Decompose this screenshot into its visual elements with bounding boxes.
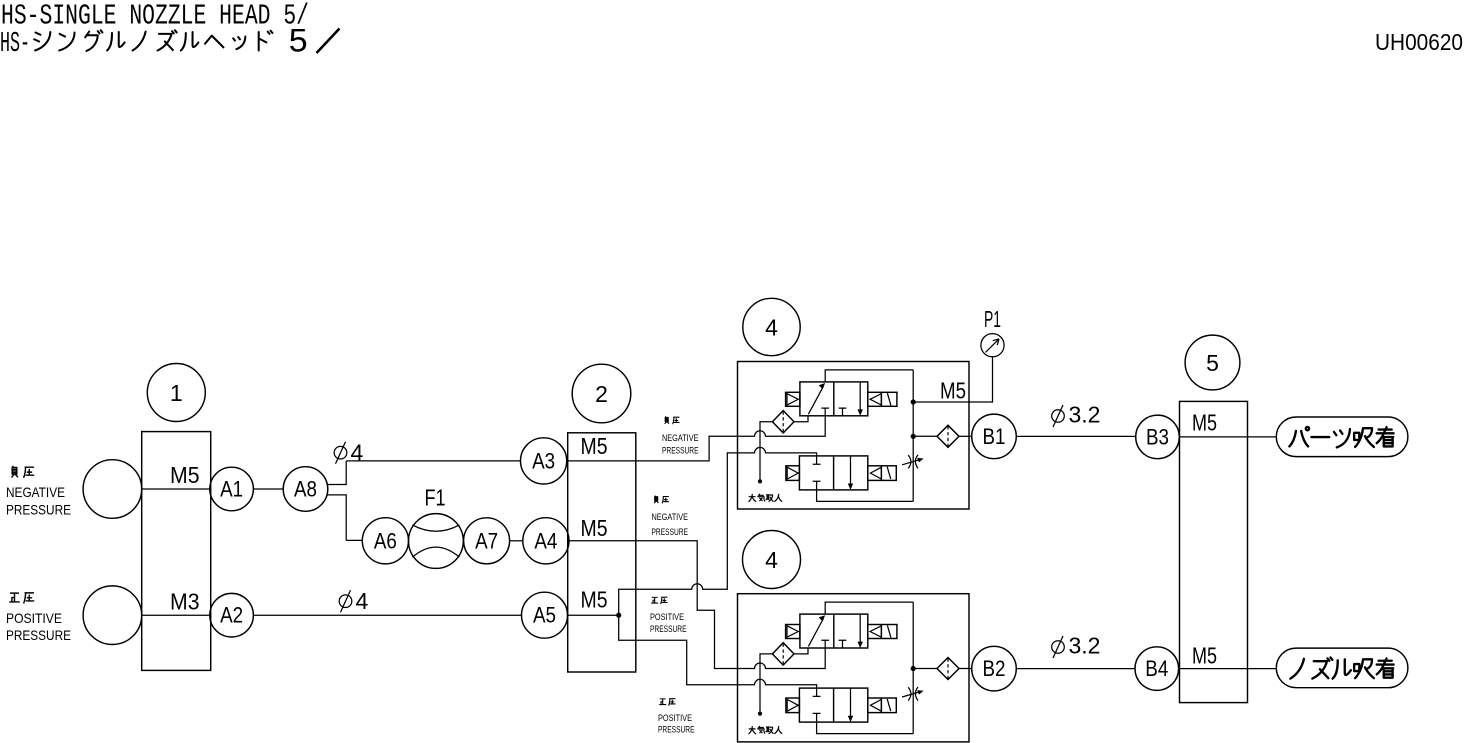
solenoid valve lower 4 lower: pilot box left: [786, 698, 800, 713]
wire: M5 port / gauge line (upper 4): [913, 357, 992, 402]
port circle A1: [210, 467, 254, 511]
port circle B2: [972, 646, 1017, 691]
solenoid valve lower 4 upper: blocked port T right: [839, 640, 847, 648]
port circle A5: [522, 592, 568, 638]
wire: junction to output filter (lower 4): [913, 668, 937, 670]
wire: pilot diamond to valve port (upper 4): [794, 416, 808, 422]
label: negative pressure (lower assembly feed): [652, 496, 689, 538]
solenoid valve upper 4 upper: blocked port T left: [821, 408, 829, 416]
wire: A5 passage to junction: [568, 614, 619, 616]
valve assembly lower 4 enclosure: [738, 594, 970, 742]
solenoid valve upper 4 upper: flow arrow: [808, 383, 825, 414]
solenoid valve lower 4 lower: exhaust arrow: [848, 688, 853, 722]
port circle A2: [210, 593, 254, 637]
wire: right vertical bus (upper 4): [912, 370, 914, 502]
svg-text:A3: A3: [532, 448, 555, 473]
solenoid valve lower 4 lower: blocked port T top: [813, 688, 821, 696]
pilot filter diamond (upper 4): [772, 411, 794, 433]
port circle A8: [283, 467, 328, 512]
wire: upper valve top port loop (upper 4): [825, 370, 913, 382]
negative pressure inlet port circle: [83, 460, 142, 519]
svg-text:UH00620: UH00620: [1375, 29, 1463, 55]
title line 2: [0, 25, 340, 63]
balloon 2: [572, 364, 631, 423]
solenoid valve lower 4 upper: pilot box left: [786, 625, 800, 639]
wire: B1 to B3: [1016, 435, 1135, 437]
svg-text:M5: M5: [581, 433, 608, 459]
solenoid valve upper 4 lower: body: [799, 456, 867, 490]
wire: negative pressure A3 line to upper assembly: [636, 416, 825, 461]
svg-text:M5: M5: [581, 587, 608, 613]
label: negative pressure (upper assembly feed): [662, 417, 699, 457]
solenoid valve upper 4 upper: body: [800, 382, 868, 416]
svg-text:B3: B3: [1146, 424, 1169, 449]
svg-text:POSITIVE: POSITIVE: [658, 713, 692, 724]
svg-text:4: 4: [351, 440, 364, 466]
port circle A3: [521, 438, 567, 484]
manifold block 2: [568, 433, 636, 672]
solenoid valve lower 4 upper: flow arrow: [808, 615, 825, 646]
valve assembly upper 4 enclosure: [738, 362, 970, 510]
solenoid valve lower 4 upper: solenoid box right: [868, 625, 897, 639]
outlet pill: nozzle suction: [1276, 648, 1408, 688]
atmospheric intake endpoint dot (lower 4): [758, 712, 762, 716]
wire: pilot diamond to atmospheric line (upper 4): [760, 422, 772, 482]
svg-text:M5: M5: [1192, 643, 1217, 669]
svg-text:4: 4: [356, 588, 369, 614]
svg-text:P1: P1: [984, 306, 1001, 332]
solenoid valve lower 4 upper: body: [800, 614, 868, 648]
wire: A3 passage through block 2: [568, 460, 636, 462]
svg-text:A7: A7: [475, 528, 498, 553]
wire: junction to output filter (upper 4): [913, 435, 937, 437]
wire: M5 passage through block 1: [142, 488, 211, 490]
wire: negative pressure A4 line to lower assembly: [636, 541, 825, 669]
manifold block 1: [142, 432, 211, 671]
svg-text:B2: B2: [983, 656, 1006, 681]
junction dot: output line (upper 4): [911, 434, 916, 439]
junction dot on A5 line: [616, 613, 621, 618]
svg-text:3.2: 3.2: [1069, 402, 1101, 428]
wire: passage through block 5 to parts pickup: [1179, 436, 1276, 438]
svg-text:NEGATIVE: NEGATIVE: [6, 484, 65, 500]
solenoid valve lower 4 upper: blocked port T left: [821, 640, 829, 648]
solenoid valve upper 4 lower: blocked port T bottom: [813, 481, 821, 490]
balloon 4 (upper 4): [743, 298, 800, 355]
throttle valve symbol (upper 4): [902, 455, 924, 469]
wire: pilot diamond to valve port (lower 4): [794, 648, 808, 654]
wire: phi4 positive line A2 to A5: [253, 614, 521, 616]
svg-text:5: 5: [288, 25, 308, 63]
svg-text:A2: A2: [220, 603, 243, 628]
wire: A8 branch fork: [327, 461, 346, 541]
label: negative pressure source: [6, 466, 71, 517]
svg-text:PRESSURE: PRESSURE: [652, 527, 689, 538]
port circle B1: [972, 414, 1017, 459]
throttle valve symbol (lower 4): [902, 687, 924, 701]
svg-text:5: 5: [1206, 350, 1219, 376]
wire: positive pressure junction to lower assembly: [619, 615, 817, 688]
outlet pill: parts suction: [1276, 417, 1408, 457]
wire: M3 passage through block 1: [142, 614, 211, 616]
wire: filter to port B1 (upper 4): [959, 435, 972, 437]
label phi4 (top): [334, 440, 363, 466]
svg-text:F1: F1: [425, 485, 446, 511]
wire: lower valve bottom port loop (upper 4): [817, 490, 914, 502]
svg-text:HS-SINGLE NOZZLE HEAD 5/: HS-SINGLE NOZZLE HEAD 5/: [1, 0, 309, 32]
pilot filter diamond (lower 4): [772, 643, 794, 665]
junction dot: M5 gauge takeoff (upper 4): [911, 399, 916, 404]
port circle A7: [464, 518, 510, 564]
solenoid valve upper 4 lower: pilot box left: [786, 466, 800, 481]
output filter diamond (upper 4): [937, 425, 959, 447]
label: atmospheric intake 大気取入 (upper 4): [749, 494, 782, 501]
pressure gauge P1: [981, 334, 1004, 357]
svg-text:PRESSURE: PRESSURE: [6, 502, 71, 518]
svg-text:POSITIVE: POSITIVE: [6, 610, 62, 626]
solenoid valve upper 4 lower: exhaust arrow: [848, 456, 853, 490]
label phi4 (bottom): [339, 588, 368, 614]
svg-text:PRESSURE: PRESSURE: [650, 624, 687, 635]
positive pressure inlet port circle: [83, 586, 142, 645]
solenoid valve lower 4 lower: solenoid box right: [868, 698, 897, 713]
solenoid valve upper 4 lower: blocked port T top: [813, 456, 821, 464]
wire: phi4 negative line A8 to A3: [346, 460, 520, 462]
svg-text:PRESSURE: PRESSURE: [662, 445, 699, 456]
svg-text:M5: M5: [1192, 410, 1217, 436]
solenoid valve upper 4 upper: pilot box left: [786, 392, 800, 406]
svg-text:M5: M5: [940, 378, 966, 404]
wire: B2 to B4: [1016, 668, 1135, 670]
label: positive pressure (upper assembly feed): [650, 597, 687, 635]
port circle A4: [523, 518, 569, 564]
wire: A4 passage through block 2: [568, 540, 636, 542]
svg-text:POSITIVE: POSITIVE: [650, 612, 684, 623]
svg-text:NEGATIVE: NEGATIVE: [662, 433, 699, 444]
label: atmospheric intake 大気取入 (lower 4): [749, 726, 782, 733]
svg-text:A6: A6: [374, 528, 397, 553]
svg-text:A8: A8: [294, 477, 317, 502]
port circle B3: [1136, 415, 1180, 459]
atmospheric intake endpoint dot (upper 4): [758, 479, 762, 483]
svg-text:NEGATIVE: NEGATIVE: [652, 512, 689, 523]
svg-text:B1: B1: [983, 424, 1006, 449]
wire: A8 lower branch to A6: [346, 539, 362, 541]
svg-text:PRESSURE: PRESSURE: [6, 627, 71, 643]
label phi3.2 (bottom): [1052, 633, 1101, 659]
flow restrictor F1: [409, 514, 464, 569]
solenoid valve upper 4 lower: solenoid box right: [868, 466, 897, 481]
svg-text:M5: M5: [581, 515, 608, 541]
svg-text:A4: A4: [534, 528, 557, 553]
solenoid valve upper 4 upper: exhaust arrow: [858, 382, 863, 416]
svg-text:4: 4: [765, 547, 778, 573]
wire: filter to port B2 (lower 4): [959, 668, 972, 670]
svg-text:HS-: HS-: [0, 27, 30, 60]
svg-text:2: 2: [595, 381, 608, 407]
svg-text:M3: M3: [170, 589, 200, 615]
balloon 4 (lower 4): [743, 531, 801, 589]
svg-text:1: 1: [170, 380, 183, 406]
port circle A6: [362, 518, 408, 564]
manifold block 5: [1180, 401, 1248, 702]
label: positive pressure (lower assembly feed): [658, 699, 695, 736]
balloon 1: [147, 364, 205, 422]
wire: right vertical bus (lower 4): [912, 602, 914, 734]
wire: upper valve top port loop (lower 4): [825, 602, 913, 614]
wire: pilot diamond to atmospheric line (lower 4): [760, 654, 772, 714]
solenoid valve lower 4 lower: blocked port T bottom: [813, 713, 821, 722]
wire: passage through block 5 to nozzle pickup: [1179, 668, 1276, 670]
svg-text:A5: A5: [533, 603, 556, 628]
wire A7 to A4: [510, 540, 523, 542]
solenoid valve lower 4 upper: exhaust arrow: [858, 614, 863, 648]
wire A1 to A8: [253, 488, 283, 490]
solenoid valve upper 4 upper: blocked port T right: [839, 408, 847, 416]
svg-text:M5: M5: [170, 462, 200, 488]
junction dot: output line (lower 4): [911, 666, 916, 671]
balloon 5: [1185, 335, 1240, 390]
port circle B4: [1135, 647, 1179, 691]
label: positive pressure source: [6, 593, 71, 643]
svg-text:B4: B4: [1145, 656, 1168, 681]
svg-text:A1: A1: [220, 477, 243, 502]
solenoid valve lower 4 lower: body: [799, 688, 867, 722]
solenoid valve upper 4 upper: solenoid box right: [868, 392, 897, 406]
svg-text:4: 4: [765, 314, 778, 340]
svg-text:PRESSURE: PRESSURE: [658, 725, 695, 736]
wire: positive pressure junction to upper assembly: [619, 447, 817, 615]
wire: lower valve bottom port loop (lower 4): [817, 722, 914, 734]
label phi3.2 (top): [1052, 402, 1101, 428]
output filter diamond (lower 4): [937, 658, 959, 680]
svg-text:3.2: 3.2: [1069, 633, 1101, 659]
